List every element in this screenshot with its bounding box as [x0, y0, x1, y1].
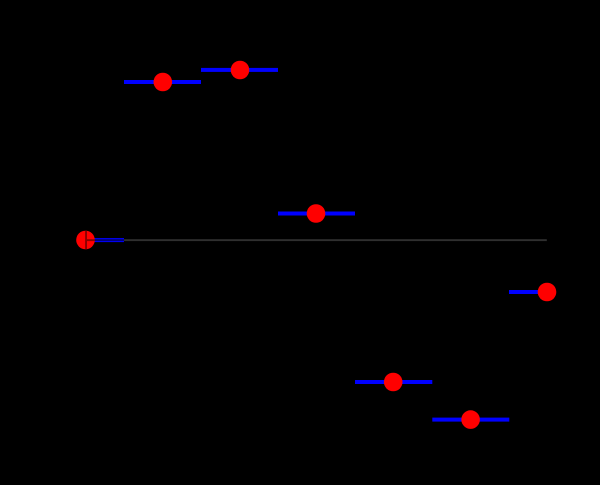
wire: step segment 1 (zero level): [85, 238, 124, 242]
node: point 5: [384, 373, 403, 392]
node: point 4: [307, 204, 326, 223]
wire: zero reference line crossing point 1: [86, 239, 95, 241]
node: point 2: [154, 73, 173, 92]
node: point 7: [538, 283, 557, 302]
wire: zero reference line over black area: [124, 239, 547, 241]
node: point 6: [461, 410, 480, 429]
wire: y-axis line crossing point 1: [85, 231, 87, 250]
wire: step segment 6: [432, 418, 509, 422]
wire: step segment 5: [355, 380, 432, 384]
wire: step segment 4: [278, 212, 355, 216]
node: point 3: [231, 61, 250, 80]
wire: step segment 2: [124, 80, 201, 84]
wire: zero reference line crossing blue segment 1: [95, 239, 125, 241]
node: point 1 at zero line: [76, 231, 95, 250]
wire: step segment 3: [201, 68, 278, 72]
wire: step segment 7: [509, 290, 548, 294]
